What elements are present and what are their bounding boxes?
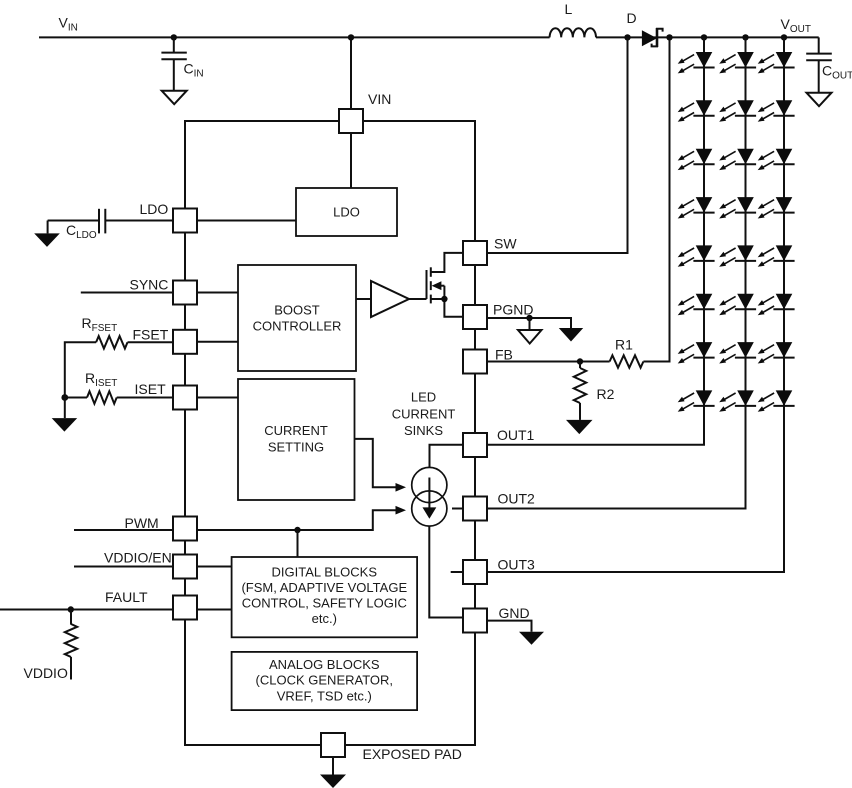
svg-text:etc.): etc.) — [312, 611, 337, 626]
LED D31 — [758, 52, 795, 73]
pin SYNC — [173, 281, 197, 305]
LED D21 — [719, 52, 756, 73]
pin PGND — [463, 305, 487, 329]
node CIN tap — [171, 34, 177, 40]
ground CLDO (filled) — [34, 233, 60, 247]
svg-text:LED: LED — [411, 390, 436, 405]
svg-text:GND: GND — [499, 605, 530, 621]
wire exposed pad to ground — [332, 757, 334, 775]
LED D11 — [678, 52, 715, 73]
wire RISET to ground — [65, 397, 87, 399]
block BOOST CONTROLLER — [238, 265, 356, 371]
wire PGND — [487, 318, 571, 329]
svg-text:CONTROLLER: CONTROLLER — [253, 319, 342, 334]
LED D24 — [719, 197, 756, 218]
pin FAULT — [173, 596, 197, 620]
pin PWM — [173, 517, 197, 541]
svg-text:L: L — [565, 1, 573, 17]
svg-text:EXPOSED PAD: EXPOSED PAD — [363, 746, 462, 762]
LED D17 — [678, 342, 715, 363]
svg-text:FSET: FSET — [133, 327, 169, 343]
node FAULT pull-up junction — [68, 606, 74, 612]
svg-text:LDO: LDO — [333, 205, 360, 220]
svg-text:DIGITAL BLOCKS: DIGITAL BLOCKS — [272, 564, 378, 579]
svg-text:OUT1: OUT1 — [497, 427, 535, 443]
LED D25 — [719, 245, 756, 266]
wire SYNC stub — [81, 292, 173, 294]
LED D14 — [678, 197, 715, 218]
transistor Q1 (boost switch) — [427, 253, 465, 317]
block CURRENT SETTING — [238, 379, 355, 500]
wire FSET left — [128, 341, 174, 343]
LED D12 — [678, 100, 715, 121]
wire PWM to sink control — [197, 510, 397, 530]
node PGND ground tap — [526, 315, 532, 321]
LED D28 — [719, 390, 756, 411]
svg-text:BOOST: BOOST — [274, 303, 320, 318]
block LDO — [296, 188, 397, 236]
pin OUT2 — [463, 497, 487, 521]
node FB divider junction — [577, 358, 583, 364]
wire LDO pin to CLDO — [105, 220, 173, 222]
diode D (Schottky) — [642, 28, 663, 47]
wire sink to OUT2 stub — [452, 508, 463, 510]
svg-text:R1: R1 — [615, 337, 633, 353]
wire VOUT rail — [596, 36, 819, 38]
LED D23 — [719, 149, 756, 170]
sink current arrow — [423, 478, 437, 519]
block ANALOG BLOCKS — [232, 652, 418, 710]
svg-text:CURRENT: CURRENT — [392, 407, 456, 422]
node PWM/digital junction — [294, 527, 300, 533]
svg-text:(FSM, ADAPTIVE VOLTAGE: (FSM, ADAPTIVE VOLTAGE — [241, 580, 407, 595]
pin ISET — [173, 386, 197, 410]
inductor L — [550, 28, 596, 37]
node source/body junction — [441, 296, 447, 302]
LED D27 — [719, 342, 756, 363]
pin GND — [463, 609, 487, 633]
wire ISET to current setting — [197, 397, 238, 399]
svg-text:SETTING: SETTING — [268, 440, 324, 455]
wire LED string 1 — [703, 37, 705, 405]
svg-text:PGND: PGND — [493, 302, 533, 318]
current source sink circle 2 — [412, 491, 447, 526]
wire PWM to digital blocks — [297, 530, 299, 557]
LED D38 — [758, 390, 795, 411]
wire SW to inductor/diode node — [487, 37, 628, 253]
node diode output — [666, 34, 672, 40]
label LED CURRENT SINKS — [392, 390, 456, 439]
ground PGND (filled) — [559, 328, 583, 342]
LED D37 — [758, 342, 795, 363]
pin FSET — [173, 330, 197, 354]
wire VDDIO/EN to digital blocks — [197, 566, 232, 568]
pin OUT3 — [463, 560, 487, 584]
wire OUT2 to LED string 2 — [487, 406, 746, 509]
resistor RFSET — [96, 336, 127, 348]
svg-text:VDDIO/EN: VDDIO/EN — [104, 550, 172, 566]
wire sink bottom to GND pin — [429, 526, 464, 617]
svg-text:OUT2: OUT2 — [498, 491, 536, 507]
op-amp gate driver — [371, 281, 409, 317]
wire current setting to sink control — [355, 439, 397, 487]
capacitor CLDO — [48, 209, 106, 234]
wire OUT3 to LED string 3 — [487, 406, 784, 572]
pin EXPOSED PAD — [321, 733, 345, 757]
svg-text:D: D — [627, 10, 637, 26]
current source sink circle 1 — [412, 467, 447, 502]
LED D35 — [758, 245, 795, 266]
capacitor CIN — [161, 37, 186, 90]
pin SW — [463, 241, 487, 265]
LED D13 — [678, 149, 715, 170]
LED D15 — [678, 245, 715, 266]
pin VDDIO/EN — [173, 555, 197, 579]
LED D33 — [758, 149, 795, 170]
wire OUT1 to LED string 1 — [487, 406, 704, 445]
ground EXPOSED PAD (filled) — [320, 775, 346, 788]
svg-text:R2: R2 — [597, 386, 615, 402]
svg-text:PWM: PWM — [125, 515, 159, 531]
svg-text:VIN: VIN — [368, 91, 391, 107]
svg-text:VREF, TSD etc.): VREF, TSD etc.) — [277, 688, 372, 703]
ground GND (filled) — [519, 632, 544, 645]
wire GND to ground — [487, 621, 532, 632]
wire FAULT — [0, 609, 173, 611]
wire tap to open ground — [529, 318, 531, 330]
wire LDO pin to LDO block — [197, 220, 296, 222]
resistor FAULT pull-up — [65, 610, 77, 680]
wire SYNC to boost controller — [197, 292, 238, 294]
resistor RISET — [87, 391, 117, 403]
svg-text:FAULT: FAULT — [105, 589, 148, 605]
wire FAULT to digital blocks — [197, 609, 232, 611]
svg-text:FB: FB — [495, 347, 513, 363]
pin LDO — [173, 209, 197, 233]
ground R2 (filled) — [566, 420, 593, 434]
wire PWM stub — [74, 529, 173, 531]
node LED string 1 tap — [701, 34, 707, 40]
svg-text:CURRENT: CURRENT — [264, 423, 328, 438]
wire FB to R1 — [487, 361, 610, 363]
capacitor COUT — [806, 37, 832, 92]
wire VDDIO/EN stub — [74, 566, 173, 568]
pin VIN — [339, 109, 363, 133]
node LED string 2 tap — [742, 34, 748, 40]
svg-text:(CLOCK GENERATOR,: (CLOCK GENERATOR, — [256, 673, 393, 688]
resistor R2 — [574, 362, 586, 420]
wire OUT3 stub — [451, 571, 463, 573]
svg-text:ISET: ISET — [135, 381, 167, 397]
svg-text:OUT3: OUT3 — [498, 557, 536, 573]
svg-text:SW: SW — [494, 236, 517, 252]
LED D34 — [758, 197, 795, 218]
wire junction to ground — [64, 398, 66, 419]
svg-text:SINKS: SINKS — [404, 423, 443, 438]
block DIGITAL BLOCKS — [232, 557, 418, 637]
wire OUT1 to sink top — [430, 445, 465, 468]
resistor R1 — [610, 355, 644, 367]
wire driver to gate — [409, 298, 427, 300]
svg-text:SYNC: SYNC — [130, 277, 169, 293]
svg-text:VDDIO: VDDIO — [24, 665, 68, 681]
wire VIN rail — [39, 36, 550, 38]
LED D16 — [678, 294, 715, 315]
wire VIN to LDO block — [350, 133, 352, 188]
LED D36 — [758, 294, 795, 315]
ground PGND (open) — [518, 330, 542, 344]
LED D26 — [719, 294, 756, 315]
IC boundary — [185, 121, 475, 745]
svg-text:LDO: LDO — [140, 201, 169, 217]
wire R1 to diode output — [643, 37, 669, 361]
node LED string 3 tap — [781, 34, 787, 40]
ground CIN (open) — [162, 91, 187, 105]
wire LED string 3 — [783, 37, 785, 405]
svg-text:ANALOG BLOCKS: ANALOG BLOCKS — [269, 657, 380, 672]
LED D18 — [678, 390, 715, 411]
wire ISET left — [117, 397, 173, 399]
wire VIN drop — [350, 37, 352, 109]
svg-text:CONTROL, SAFETY LOGIC: CONTROL, SAFETY LOGIC — [242, 596, 407, 611]
wire LED string 2 — [745, 37, 747, 405]
ground COUT (open) — [807, 93, 832, 107]
LED D32 — [758, 100, 795, 121]
node FSET/ISET ground junction — [61, 394, 68, 401]
pin FB — [463, 350, 487, 374]
ground RFSET/RISET (filled) — [52, 418, 77, 432]
pin OUT1 — [463, 433, 487, 457]
node L-D junction — [624, 34, 630, 40]
wire FSET to boost controller — [197, 341, 238, 343]
LED D22 — [719, 100, 756, 121]
wire RFSET to ground rail — [65, 342, 96, 397]
wire boost controller to driver — [356, 298, 371, 300]
